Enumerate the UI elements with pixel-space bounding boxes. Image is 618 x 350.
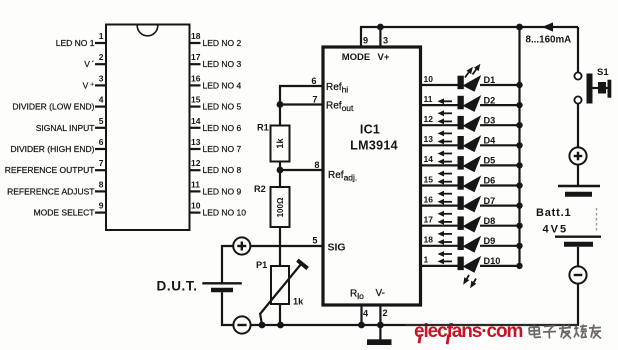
battery Batt.1 <box>558 185 600 187</box>
svg-text:D.U.T.: D.U.T. <box>157 279 198 294</box>
svg-text:D7: D7 <box>484 196 496 206</box>
wire pin 16 to LED D7 <box>422 205 458 207</box>
svg-text:8: 8 <box>314 160 319 170</box>
junction P1 bottom / rail <box>277 322 284 329</box>
wire LED D8 to V+ rail <box>480 225 520 227</box>
wire pin 12 to LED D3 <box>422 124 458 126</box>
svg-text:9: 9 <box>99 201 104 211</box>
svg-text:1k: 1k <box>293 297 304 307</box>
wire S1 to + terminal <box>577 104 579 148</box>
pin 11 lead <box>189 190 201 192</box>
svg-text:D3: D3 <box>484 115 496 125</box>
wire D.U.T. battery to - terminal <box>222 292 234 325</box>
node - terminal (D.U.T.) <box>233 316 250 333</box>
IC pinout package outline <box>106 25 190 231</box>
LED D8 <box>458 216 464 230</box>
LED D9 <box>458 237 464 251</box>
watermark chinese characters <box>529 325 601 339</box>
svg-text:Refhi: Refhi <box>326 82 348 95</box>
junction P1 wiper / rail <box>259 322 266 329</box>
svg-text:D10: D10 <box>484 256 501 266</box>
junction R1/R2/pin8 <box>277 167 284 174</box>
svg-text:Batt.1: Batt.1 <box>536 207 571 219</box>
junction D6 / rail <box>516 182 522 188</box>
pin 17 lead <box>189 63 201 65</box>
wire LED D10 to V+ rail <box>480 265 520 267</box>
battery D.U.T. <box>202 282 242 284</box>
pin 6 lead <box>95 148 107 150</box>
svg-text:7: 7 <box>99 158 104 168</box>
svg-text:Rlo: Rlo <box>350 289 364 302</box>
svg-text:100Ω: 100Ω <box>276 197 285 217</box>
resistor R1 <box>271 126 290 162</box>
svg-text:IC1: IC1 <box>360 123 380 137</box>
wire pin 18 to LED D9 <box>422 245 458 247</box>
svg-text:13: 13 <box>424 134 434 144</box>
svg-text:16: 16 <box>191 73 201 83</box>
svg-text:D5: D5 <box>484 156 496 166</box>
LED D4 <box>458 136 464 150</box>
LED D1 <box>458 76 464 90</box>
wire pin 2 V- <box>379 307 381 340</box>
junction pin 3 / top rail <box>377 24 384 31</box>
junction D2 / rail <box>516 102 522 108</box>
op IC1 LM3914 block <box>323 47 421 305</box>
svg-text:D8: D8 <box>484 216 496 226</box>
pin 3 lead <box>95 84 107 86</box>
svg-text:11: 11 <box>424 94 433 104</box>
pin 7 lead <box>95 169 107 171</box>
wire LED D1 to V+ rail <box>480 84 520 86</box>
pin 1 lead <box>95 42 107 44</box>
IC pinout notch <box>137 26 158 36</box>
wire pin 10 to LED D1 <box>422 84 458 86</box>
svg-text:LED NO 9: LED NO 9 <box>203 186 242 196</box>
node - terminal (Batt.1) <box>569 266 586 283</box>
pin 8 lead <box>95 190 107 192</box>
svg-text:LED NO 1: LED NO 1 <box>56 38 95 48</box>
junction D10 / rail <box>516 263 522 269</box>
LED D3 <box>458 116 464 129</box>
P1 wiper arrow <box>260 264 302 315</box>
svg-text:15: 15 <box>191 95 201 105</box>
svg-text:MODE: MODE <box>342 52 371 63</box>
svg-text:D2: D2 <box>484 95 496 105</box>
wire pin 3 V+ <box>379 27 381 47</box>
svg-text:P1: P1 <box>256 260 267 270</box>
svg-text:6: 6 <box>99 137 104 147</box>
ground <box>367 339 392 345</box>
wire LED D7 to V+ rail <box>480 205 520 207</box>
ground rail wire <box>250 324 578 326</box>
wire top rail to S1 <box>577 27 579 72</box>
LED D6 emission arrows <box>441 181 452 183</box>
LED D5 <box>458 156 464 170</box>
svg-text:17: 17 <box>191 52 201 62</box>
pin 15 lead <box>189 105 201 107</box>
wire pin 7 Ref out <box>280 103 322 105</box>
svg-text:Refout: Refout <box>326 101 354 114</box>
wire pin 6 Ref hi <box>280 86 322 105</box>
svg-text:MODE SELECT: MODE SELECT <box>34 208 95 218</box>
LED D10 emission arrow <box>441 260 452 262</box>
LED D6 <box>458 176 464 190</box>
wire LED D3 to V+ rail <box>480 124 520 126</box>
resistor R2 <box>271 187 290 227</box>
svg-text:LED NO 5: LED NO 5 <box>203 102 242 112</box>
pin 16 lead <box>189 84 201 86</box>
svg-text:10: 10 <box>424 74 434 84</box>
junction D5 / rail <box>516 162 522 168</box>
svg-text:V ⁺: V ⁺ <box>83 80 95 90</box>
svg-text:9: 9 <box>363 36 368 46</box>
switch S1 <box>574 72 581 79</box>
wire pin 15 to LED D6 <box>422 184 458 186</box>
svg-text:V-: V- <box>376 288 385 299</box>
LED D8 emission arrows <box>441 221 452 223</box>
svg-text:R1: R1 <box>257 123 269 133</box>
svg-text:17: 17 <box>424 215 434 225</box>
svg-text:REFERENCE ADJUST: REFERENCE ADJUST <box>7 186 94 196</box>
LED D2 emission arrows <box>441 100 452 102</box>
wire R1 to R2 <box>279 162 281 188</box>
svg-text:13: 13 <box>191 137 201 147</box>
svg-text:LED NO 4: LED NO 4 <box>203 80 242 90</box>
junction D7 / rail <box>516 202 522 208</box>
svg-text:4: 4 <box>363 309 369 319</box>
svg-text:7: 7 <box>312 95 317 105</box>
junction D8 / rail <box>516 223 522 229</box>
wire pin 4 R lo <box>360 307 362 326</box>
svg-text:18: 18 <box>191 31 201 41</box>
pin 12 lead <box>189 169 201 171</box>
svg-text:SIGNAL INPUT: SIGNAL INPUT <box>36 123 95 133</box>
wire pin 8 Ref adj <box>280 169 322 171</box>
pin 13 lead <box>189 148 201 150</box>
pin 4 lead <box>95 105 107 107</box>
LED D9 emission arrows <box>441 241 452 243</box>
LED D10 <box>458 257 464 271</box>
wire pin 17 to LED D8 <box>422 225 458 227</box>
svg-text:LED NO 3: LED NO 3 <box>203 59 242 69</box>
node + terminal (D.U.T.) <box>233 237 250 254</box>
svg-text:2: 2 <box>99 52 104 62</box>
svg-text:16: 16 <box>424 194 434 204</box>
junction node Ref <box>277 101 284 108</box>
svg-text:4V5: 4V5 <box>543 224 569 236</box>
node + terminal (Batt.1) <box>569 147 586 164</box>
LED D4 emission arrows <box>441 141 452 143</box>
svg-text:DIVIDER (LOW END): DIVIDER (LOW END) <box>12 102 94 112</box>
svg-text:V+: V+ <box>378 52 390 63</box>
wire ground rail over watermark <box>405 324 578 326</box>
wire LED D4 to V+ rail <box>480 144 520 146</box>
pin 10 lead <box>189 212 201 214</box>
battery fold mark <box>596 208 598 232</box>
svg-text:1: 1 <box>99 31 104 41</box>
wire - terminal to ground rail <box>577 284 579 326</box>
wire LED D2 to V+ rail <box>480 104 520 106</box>
svg-text:15: 15 <box>424 174 434 184</box>
svg-text:1: 1 <box>424 255 429 265</box>
pin 14 lead <box>189 127 201 129</box>
svg-text:LM3914: LM3914 <box>350 139 398 153</box>
svg-text:10: 10 <box>191 201 201 211</box>
svg-text:LED NO 7: LED NO 7 <box>203 144 242 154</box>
wire R2 to P1 (crosses SIG) <box>279 227 281 266</box>
pin 18 lead <box>189 42 201 44</box>
wire pin 9 MODE to top rail <box>361 27 578 47</box>
svg-text:5: 5 <box>312 236 317 246</box>
svg-text:18: 18 <box>424 235 434 245</box>
LED D3 emission arrows <box>441 120 452 122</box>
pin 2 lead <box>95 63 107 65</box>
junction pin 2 / rail <box>377 322 384 329</box>
svg-text:S1: S1 <box>597 67 609 78</box>
pin 5 lead <box>95 127 107 129</box>
svg-text:1k: 1k <box>275 138 285 149</box>
LED D5 emission arrows <box>441 161 452 163</box>
junction D3 / rail <box>516 122 522 128</box>
svg-text:D4: D4 <box>484 136 497 146</box>
junction pin 4 / rail <box>358 322 365 329</box>
svg-text:3: 3 <box>383 36 388 46</box>
svg-text:V ´: V ´ <box>84 59 94 69</box>
svg-text:3: 3 <box>99 73 104 83</box>
svg-text:Refadj.: Refadj. <box>328 170 357 183</box>
current direction arrow <box>542 22 553 31</box>
wire P1 wiper to ground rail <box>260 313 262 325</box>
svg-text:12: 12 <box>191 158 201 168</box>
junction D4 / rail <box>516 142 522 148</box>
svg-text:5: 5 <box>99 116 104 126</box>
wire pin 5 SIG <box>250 245 321 247</box>
svg-text:LED NO 2: LED NO 2 <box>203 38 242 48</box>
svg-text:4: 4 <box>99 95 104 105</box>
pin 9 lead <box>95 212 107 214</box>
svg-text:REFERENCE OUTPUT: REFERENCE OUTPUT <box>5 165 95 175</box>
svg-text:8: 8 <box>99 179 104 189</box>
svg-text:14: 14 <box>424 154 434 164</box>
junction D9 / rail <box>516 243 522 249</box>
wire LED D5 to V+ rail <box>480 164 520 166</box>
svg-text:14: 14 <box>191 116 201 126</box>
wire LED D9 to V+ rail <box>480 245 520 247</box>
svg-text:LED NO 6: LED NO 6 <box>203 123 242 133</box>
wire + terminal to Batt.1 <box>577 165 579 185</box>
junction LED rail / top rail <box>516 24 523 31</box>
svg-text:2: 2 <box>383 308 388 318</box>
wire P1 bottom to ground rail <box>279 304 281 325</box>
wire Batt.1 to - terminal <box>577 247 579 267</box>
svg-text:SIG: SIG <box>328 242 346 254</box>
LED D10 emission arrows <box>467 275 469 279</box>
wire junction to R1 <box>279 105 281 126</box>
svg-text:11: 11 <box>191 179 200 189</box>
LED D2 <box>458 96 464 110</box>
svg-text:DIVIDER (HIGH END): DIVIDER (HIGH END) <box>10 144 94 154</box>
svg-text:8...160mA: 8...160mA <box>526 35 572 46</box>
svg-text:D6: D6 <box>484 176 496 186</box>
svg-text:D9: D9 <box>484 236 496 246</box>
svg-text:D1: D1 <box>484 75 496 85</box>
V+ LED rail <box>518 27 520 266</box>
wire pin 11 to LED D2 <box>422 104 458 106</box>
wire pin 1 to LED D10 <box>422 265 458 267</box>
LED D1 emission arrows <box>465 72 469 77</box>
wire + terminal to D.U.T. battery <box>222 246 233 283</box>
svg-text:LED NO 8: LED NO 8 <box>203 165 242 175</box>
junction D1 / rail <box>516 82 522 88</box>
LED D7 <box>458 196 464 210</box>
wire LED D6 to V+ rail <box>480 184 520 186</box>
svg-text:LED NO 10: LED NO 10 <box>203 208 247 218</box>
LED D7 emission arrows <box>441 201 452 203</box>
svg-text:6: 6 <box>311 76 316 86</box>
wire pin 13 to LED D4 <box>422 144 458 146</box>
svg-text:12: 12 <box>424 114 434 124</box>
wire pin 14 to LED D5 <box>422 164 458 166</box>
svg-text:R2: R2 <box>254 184 266 194</box>
potentiometer P1 body <box>271 266 289 304</box>
